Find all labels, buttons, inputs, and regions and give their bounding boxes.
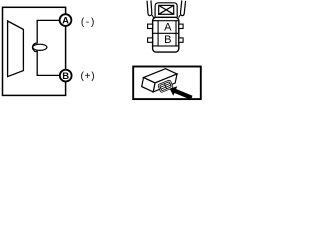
pin divider line: [153, 32, 179, 34]
terminal B circle: [60, 70, 72, 82]
horn speaker cone: [8, 21, 24, 77]
connector latch right ear: [180, 0, 185, 15]
terminal A circle: [60, 14, 72, 26]
connector latch left ear: [147, 0, 152, 15]
horn outer box: [3, 7, 66, 95]
3D connector front face: [153, 74, 177, 92]
pin cavity column: [158, 21, 176, 46]
connector left lower tab: [148, 38, 153, 42]
wire to terminal B: [37, 51, 61, 76]
3D connector pin block: [158, 80, 174, 93]
connector body: [153, 17, 179, 52]
svg-text:A: A: [62, 16, 69, 27]
3D connector top face: [144, 69, 178, 83]
connector latch housing: [155, 3, 177, 17]
svg-text:(-): (-): [81, 17, 96, 28]
coil curl: [33, 43, 38, 52]
connector right lower tab: [179, 38, 183, 42]
connector left upper tab: [148, 24, 153, 28]
3D connector side face: [142, 78, 155, 92]
svg-text:B: B: [62, 71, 69, 82]
right ear foot: [179, 15, 180, 18]
svg-text:A: A: [164, 22, 172, 34]
inset panel box: [133, 67, 201, 100]
pointer arrow: [170, 86, 193, 100]
pin row top stub lines: [153, 21, 179, 46]
connector latch lock X-box: [159, 5, 174, 14]
connector right upper tab: [179, 24, 183, 28]
svg-text:(+): (+): [81, 71, 96, 82]
svg-text:B: B: [164, 34, 171, 46]
coil loop ellipse: [33, 44, 47, 50]
wire to terminal A: [37, 20, 60, 43]
left ear foot: [152, 15, 154, 18]
